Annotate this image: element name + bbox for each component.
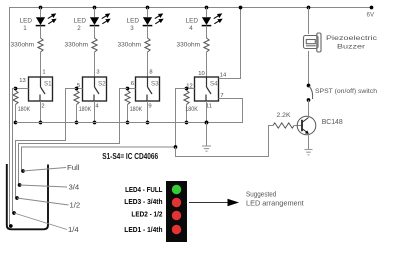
wire S3 output to ground bus <box>147 101 149 123</box>
wire IC pin 7 to ground bus <box>207 99 243 123</box>
wire buzzer to SPST switch <box>308 51 310 85</box>
analog switch S3 (CD4066) <box>136 77 160 101</box>
ground bus <box>16 122 207 124</box>
svg-text:1: 1 <box>42 69 45 75</box>
svg-text:1: 1 <box>23 25 27 32</box>
wire S1 output to ground bus <box>40 101 42 123</box>
node S2 control junction <box>75 87 79 91</box>
svg-text:2: 2 <box>77 25 81 32</box>
LED LED1 <box>36 17 45 25</box>
wire LED1 to R1 <box>40 26 42 38</box>
svg-text:LED1 - 1/4th: LED1 - 1/4th <box>124 225 163 234</box>
ground (IC pin 7) <box>202 146 211 151</box>
node R6 on ground bus <box>75 121 79 125</box>
resistor R5 180K <box>13 91 18 105</box>
svg-text:4: 4 <box>95 103 99 109</box>
svg-text:4: 4 <box>189 25 193 32</box>
svg-text:330ohm: 330ohm <box>65 41 89 48</box>
svg-text:330ohm: 330ohm <box>118 41 142 48</box>
svg-text:14: 14 <box>220 72 227 78</box>
wire R8 to ground bus <box>186 105 188 123</box>
wire LED4 to R4 <box>206 26 208 38</box>
svg-text:13: 13 <box>19 78 25 84</box>
svg-text:1/2: 1/2 <box>70 202 81 209</box>
svg-text:180K: 180K <box>79 106 92 113</box>
svg-text:Full: Full <box>67 165 80 172</box>
resistor R2 330ohm <box>92 38 97 52</box>
LED LED4 <box>202 17 211 25</box>
analog switch S4 (CD4066) <box>195 77 219 101</box>
resistor R9 2.2K <box>273 123 294 128</box>
LED arrangement panel <box>166 181 187 242</box>
analog switch S2 (CD4066) <box>83 77 107 101</box>
wire rail to LED1 <box>40 8 42 18</box>
wire 1/2 leader <box>17 198 69 205</box>
switch SW1 SPST <box>307 84 311 88</box>
LED2 emission arrows <box>102 14 110 24</box>
node S1 control junction <box>14 87 18 91</box>
wire 1/4 leader <box>14 213 67 230</box>
transistor Q1 BC148 <box>297 116 316 135</box>
svg-text:5: 5 <box>77 83 80 89</box>
svg-text:Buzzer: Buzzer <box>337 44 366 51</box>
svg-text:LED: LED <box>20 18 33 25</box>
wire R1 to S1 input <box>40 52 42 77</box>
svg-text:6: 6 <box>131 81 134 87</box>
svg-text:Piezoelectric: Piezoelectric <box>326 35 378 42</box>
svg-text:8: 8 <box>149 69 152 75</box>
svg-text:LED: LED <box>74 18 87 25</box>
wire rail to LED4 <box>206 8 208 18</box>
wire R6 to ground bus <box>76 105 78 123</box>
svg-text:7: 7 <box>220 93 223 99</box>
resistor R8 180K <box>184 91 189 105</box>
wire junction to 2.2K resistor <box>176 126 274 157</box>
node R7 on ground bus <box>126 121 130 125</box>
node rail junction S1 branch <box>39 6 43 10</box>
wire S1 control to 1/4 probe <box>13 89 16 214</box>
node S4 control / buzzer feed junction <box>174 145 178 149</box>
LED3 emission arrows <box>155 14 163 24</box>
wire R7 to ground bus <box>127 105 129 123</box>
resistor R3 330ohm <box>145 38 150 52</box>
node S4 output on ground bus <box>205 121 209 125</box>
svg-text:330ohm: 330ohm <box>177 41 201 48</box>
ground (Q1 emitter) <box>305 150 313 155</box>
node 3/4 probe <box>18 183 22 187</box>
svg-text:3: 3 <box>130 25 134 32</box>
wire S4 control pin <box>187 88 195 90</box>
wire S1 control pin <box>16 88 29 90</box>
wire R3 to S3 input <box>147 52 149 77</box>
svg-text:9: 9 <box>148 103 151 109</box>
svg-text:2.2K: 2.2K <box>277 112 291 119</box>
svg-text:180K: 180K <box>185 106 198 113</box>
wire R9 to Q1 base <box>294 125 302 127</box>
LED4 emission arrows <box>214 14 222 24</box>
wire S4 control to Full probe <box>22 89 187 172</box>
wire S2 control to 1/2 probe <box>16 89 77 199</box>
arrow to suggested arrangement <box>189 202 229 204</box>
node S4 control junction <box>185 87 189 91</box>
svg-text:12: 12 <box>186 83 192 89</box>
node rail junction pin 14 <box>239 6 243 10</box>
resistor R1 330ohm <box>38 38 43 52</box>
node 1/4 probe <box>12 211 16 215</box>
wire LED3 to R3 <box>147 26 149 38</box>
svg-text:3/4: 3/4 <box>69 184 80 191</box>
wire S3 control pin <box>128 88 136 90</box>
wire rail to LED2 <box>94 8 96 18</box>
node 1/2 probe <box>15 196 19 200</box>
wire R5 to ground bus <box>15 105 17 123</box>
svg-text:2: 2 <box>41 103 44 109</box>
svg-text:1/4: 1/4 <box>68 227 79 234</box>
svg-text:LED: LED <box>186 18 199 25</box>
wire R2 to S2 input <box>94 52 96 77</box>
wire bus to IC ground symbol <box>206 123 208 147</box>
node rail junction buzzer branch <box>307 6 311 10</box>
LED LED2 <box>90 17 99 25</box>
svg-text:LED2 - 1/2: LED2 - 1/2 <box>131 210 162 219</box>
wire S3 control to 3/4 probe <box>19 89 128 186</box>
svg-text:3: 3 <box>96 69 99 75</box>
wire Full leader <box>23 168 66 172</box>
svg-text:S1-S4= IC CD4066: S1-S4= IC CD4066 <box>102 151 158 161</box>
node S3 control junction <box>126 87 130 91</box>
svg-text:LED3 - 3/4th: LED3 - 3/4th <box>124 197 163 206</box>
analog switch S1 (CD4066) <box>29 77 53 101</box>
node S1 output on ground bus <box>39 121 43 125</box>
node S3 output on ground bus <box>146 121 150 125</box>
svg-text:330ohm: 330ohm <box>11 41 35 48</box>
node rail junction S2 branch <box>93 6 97 10</box>
svg-text:S3: S3 <box>151 80 159 87</box>
piezoelectric buzzer BZ1 <box>304 33 322 52</box>
resistor R4 330ohm <box>204 38 209 52</box>
resistor R6 180K <box>74 91 79 105</box>
LED1 emission arrows <box>48 14 56 24</box>
wire 3/4 leader <box>20 185 67 187</box>
svg-text:SPST (on/off) switch: SPST (on/off) switch <box>315 88 377 95</box>
node R5 on ground bus <box>14 121 18 125</box>
LED1 indicator (red) <box>172 225 181 234</box>
LED LED3 <box>143 17 152 25</box>
svg-text:180K: 180K <box>130 106 143 113</box>
wire S2 output to ground bus <box>94 101 96 123</box>
node R8 on ground bus <box>185 121 189 125</box>
power rail +6V <box>10 8 372 223</box>
LED4 indicator (green) <box>172 185 181 194</box>
node common probe (+6V) <box>10 222 11 226</box>
svg-text:LED: LED <box>127 18 140 25</box>
svg-text:S1: S1 <box>44 80 52 87</box>
svg-text:LED arrangement: LED arrangement <box>246 200 304 207</box>
svg-text:6V: 6V <box>367 12 375 19</box>
node rail junction S3 branch <box>146 6 150 10</box>
wire LED2 to R2 <box>94 26 96 38</box>
wire rail to buzzer <box>308 8 310 35</box>
svg-text:S2: S2 <box>98 80 106 87</box>
wire S4 output to ground bus <box>206 101 208 123</box>
node S2 output on ground bus <box>93 121 97 125</box>
wire Q1 emitter to ground <box>308 134 310 150</box>
wire S2 control pin <box>77 88 83 90</box>
svg-text:180K: 180K <box>18 106 31 113</box>
svg-text:10: 10 <box>198 71 204 77</box>
svg-text:BC148: BC148 <box>322 117 343 126</box>
resistor R7 180K <box>125 91 130 105</box>
node +6V rail end junction <box>370 6 374 10</box>
svg-text:LED4 - FULL: LED4 - FULL <box>125 185 163 194</box>
wire rail to LED3 <box>147 8 149 18</box>
node rail junction S4 branch <box>205 6 209 10</box>
svg-text:Suggested: Suggested <box>246 191 276 198</box>
svg-text:S4: S4 <box>210 80 218 87</box>
wire R4 to S4 input <box>206 52 208 77</box>
node Full probe <box>21 169 25 173</box>
node IC ground junction <box>205 121 209 125</box>
wire SPST to Q1 collector <box>308 100 310 118</box>
LED3 indicator (red) <box>172 198 181 207</box>
LED2 indicator (red) <box>172 211 181 220</box>
water tank <box>7 164 48 229</box>
wire IC pin 14 to +6V <box>219 8 241 79</box>
